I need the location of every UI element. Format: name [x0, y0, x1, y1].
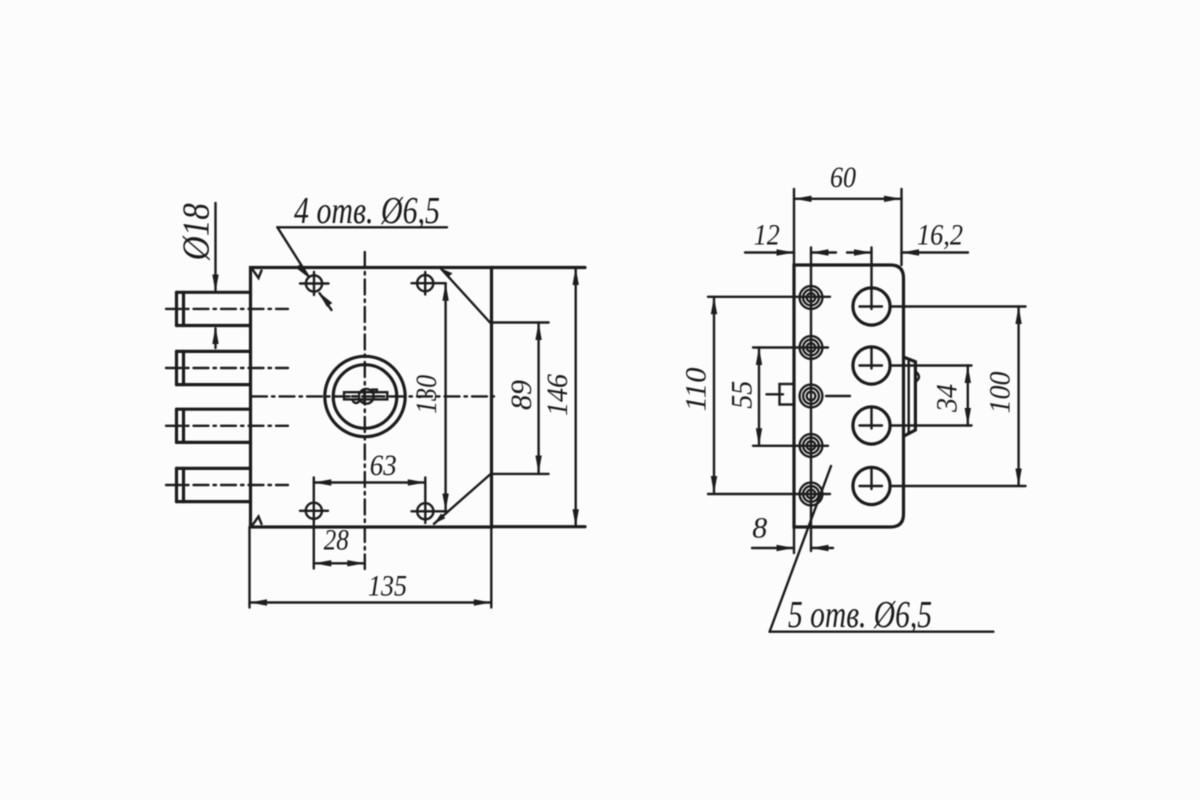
- svg-text:89: 89: [505, 380, 538, 410]
- svg-text:135: 135: [368, 570, 407, 603]
- svg-text:5 отв. Ø6,5: 5 отв. Ø6,5: [788, 594, 932, 636]
- svg-text:8: 8: [752, 512, 767, 545]
- svg-text:55: 55: [725, 381, 758, 409]
- svg-text:16,2: 16,2: [917, 219, 963, 252]
- svg-text:60: 60: [830, 161, 856, 194]
- svg-text:100: 100: [984, 372, 1017, 414]
- svg-text:146: 146: [541, 374, 574, 416]
- svg-text:28: 28: [324, 524, 349, 557]
- svg-text:130: 130: [410, 375, 443, 414]
- svg-text:4 отв. Ø6,5: 4 отв. Ø6,5: [294, 190, 440, 232]
- svg-text:63: 63: [370, 449, 397, 482]
- svg-text:110: 110: [680, 368, 713, 412]
- svg-text:12: 12: [754, 219, 780, 252]
- svg-text:34: 34: [930, 384, 963, 413]
- svg-text:Ø18: Ø18: [175, 203, 217, 261]
